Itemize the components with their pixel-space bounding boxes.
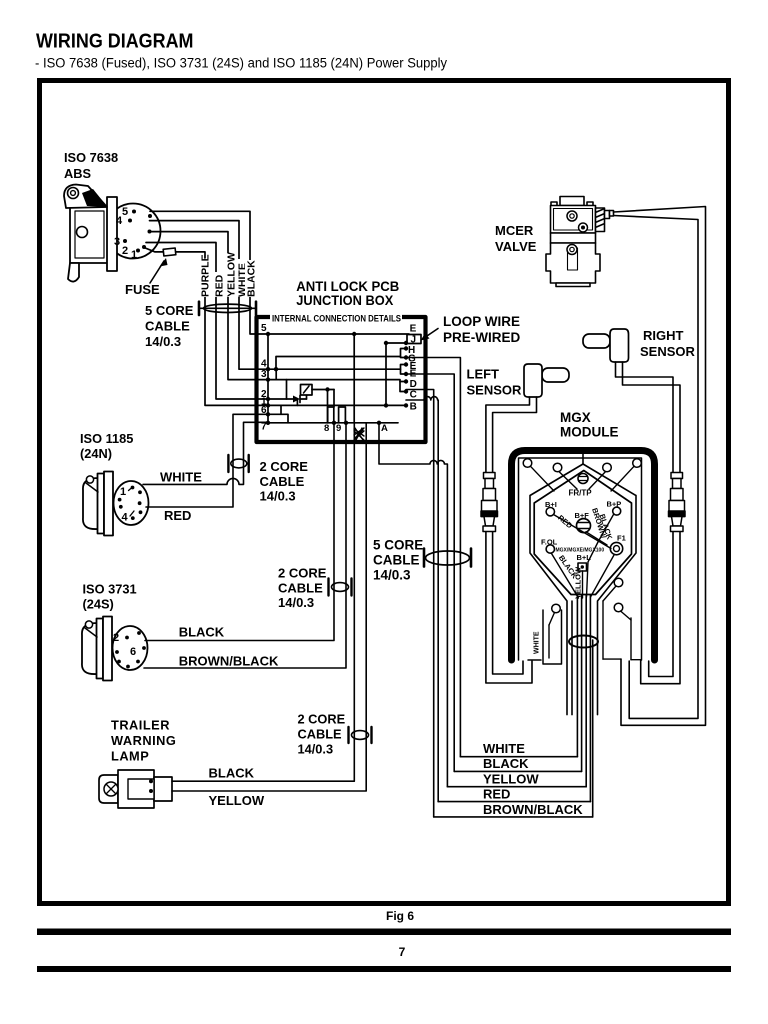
- wire row 2 with diode to relay: [268, 398, 293, 400]
- relay K1: [301, 385, 313, 396]
- bracket H-G: [401, 349, 407, 358]
- svg-text:2 CORE: 2 CORE: [278, 566, 327, 581]
- svg-text:ANTI LOCK PCB: ANTI LOCK PCB: [296, 279, 399, 294]
- connector ISO7638 top bracket with hole: [64, 185, 107, 209]
- svg-text:WHITE: WHITE: [483, 741, 525, 756]
- wire from valve upper: [614, 207, 706, 726]
- connector ISO7638 side boss circle: [77, 227, 88, 238]
- junction box outline: [257, 317, 426, 442]
- svg-text:ISO 3731: ISO 3731: [83, 582, 137, 597]
- letter row dots: [404, 341, 408, 345]
- svg-text:FUSE: FUSE: [125, 282, 160, 297]
- wire right sensor 1: [616, 362, 674, 677]
- svg-text:8: 8: [324, 423, 329, 434]
- svg-text:14/0.3: 14/0.3: [278, 595, 314, 610]
- svg-text:RED: RED: [164, 508, 191, 523]
- svg-text:7: 7: [399, 945, 406, 959]
- valve circles: [567, 211, 577, 221]
- wire row BLACK: [454, 770, 581, 772]
- outer plate outline left: [530, 464, 583, 715]
- module MGX inner wall: [519, 458, 642, 660]
- svg-text:2 CORE: 2 CORE: [298, 712, 346, 727]
- bracket D-C: [400, 382, 406, 392]
- svg-text:RED: RED: [483, 787, 510, 802]
- horizontal rule 2: [37, 966, 731, 972]
- svg-text:CABLE: CABLE: [373, 553, 420, 568]
- svg-text:3: 3: [114, 236, 120, 248]
- connector ISO7638 housing body: [70, 206, 108, 263]
- svg-text:E: E: [410, 324, 417, 335]
- screw holes lower: [552, 604, 561, 613]
- wire exit E row to black: [406, 374, 454, 771]
- wire black from pin5: [150, 211, 268, 334]
- pin numbers left side: [261, 323, 267, 433]
- wire yellow lamp: [172, 423, 366, 791]
- pin numbers bottom: [324, 423, 388, 434]
- wire cascade 4 up to HG feed: [276, 357, 401, 370]
- wire bottom row 7: [268, 422, 398, 424]
- svg-text:BLACK: BLACK: [179, 625, 225, 640]
- wire brown/black: [144, 423, 346, 668]
- wire row YELLOW: [447, 786, 586, 788]
- svg-text:BLACK: BLACK: [483, 756, 529, 771]
- svg-text:WHITE: WHITE: [534, 631, 541, 654]
- connector ISO1185 housing: [83, 474, 104, 534]
- hexagon plate: [534, 471, 631, 595]
- wire red from pin2: [146, 243, 268, 400]
- wire vertical from row5 down: [353, 334, 355, 423]
- wire left sensor 1: [486, 397, 532, 683]
- wire row 3 to DC bracket: [268, 380, 400, 382]
- svg-text:JUNCTION BOX: JUNCTION BOX: [296, 293, 393, 308]
- wire jog over pin8: [328, 407, 334, 423]
- svg-text:CABLE: CABLE: [298, 727, 343, 742]
- wire left sensor 2: [493, 397, 537, 674]
- terminal FR/TP: [578, 474, 588, 484]
- connector ISO3731 housing: [82, 619, 103, 679]
- screw hole stubs: [531, 466, 555, 491]
- svg-text:SENSOR: SENSOR: [640, 344, 696, 359]
- svg-text:PURPLE: PURPLE: [200, 254, 212, 297]
- svg-text:(24S): (24S): [83, 597, 114, 612]
- cable marker 2-core lamp: [347, 727, 349, 743]
- svg-text:A: A: [381, 423, 388, 434]
- pin dots: [132, 210, 136, 214]
- svg-text:CABLE: CABLE: [260, 474, 305, 489]
- svg-text:B: B: [410, 402, 417, 413]
- bracket E-E: [401, 365, 407, 375]
- wire row BROWN/BLACK: [434, 816, 593, 818]
- wire red: [146, 414, 268, 507]
- fuse F1: [163, 248, 176, 256]
- svg-text:14/0.3: 14/0.3: [145, 334, 181, 349]
- svg-text:WIRING DIAGRAM: WIRING DIAGRAM: [36, 31, 194, 53]
- svg-text:ISO 7638: ISO 7638: [64, 150, 118, 165]
- svg-text:BLACK: BLACK: [246, 260, 258, 297]
- svg-text:MODULE: MODULE: [560, 425, 619, 440]
- svg-text:4: 4: [261, 359, 267, 370]
- wire cascade ladder: [275, 369, 277, 379]
- connector ISO1185 circle: [114, 481, 149, 525]
- svg-text:ABS: ABS: [64, 166, 91, 181]
- svg-text:(24N): (24N): [80, 446, 112, 461]
- wire jog over pin9: [339, 407, 346, 423]
- svg-text:MGX: MGX: [560, 410, 591, 425]
- svg-text:CABLE: CABLE: [145, 319, 190, 334]
- svg-text:BLACK: BLACK: [209, 766, 255, 781]
- svg-text:14/0.3: 14/0.3: [260, 489, 296, 504]
- valve MCER body: [546, 197, 614, 287]
- inline connector left sensor: [481, 473, 498, 532]
- cable marker 2-core ISO1185: [227, 455, 229, 472]
- svg-text:5 CORE: 5 CORE: [145, 303, 194, 318]
- connector ISO7638 mounting plate: [107, 197, 117, 271]
- left pin bus: [267, 334, 269, 423]
- svg-text:14/0.3: 14/0.3: [373, 568, 411, 583]
- svg-text:LOOP WIRE: LOOP WIRE: [443, 314, 520, 329]
- svg-text:WARNING: WARNING: [111, 733, 176, 748]
- lamp trailer warning: [99, 775, 118, 803]
- svg-text:2: 2: [122, 245, 128, 257]
- svg-text:- ISO 7638 (Fused), ISO 3731 (: - ISO 7638 (Fused), ISO 3731 (24S) and I…: [35, 56, 447, 71]
- svg-text:PRE-WIRED: PRE-WIRED: [443, 330, 521, 345]
- wire row 1 to B: [268, 404, 406, 406]
- hatch mark symbol: [354, 428, 364, 440]
- svg-text:WHITE: WHITE: [160, 470, 202, 485]
- connector ISO3731 circle: [113, 626, 148, 670]
- pin junction dots: [266, 332, 270, 336]
- svg-text:RIGHT: RIGHT: [643, 328, 684, 343]
- svg-text:ISO 1185: ISO 1185: [80, 431, 133, 446]
- svg-text:INTERNAL CONNECTION DETAILS: INTERNAL CONNECTION DETAILS: [272, 314, 401, 325]
- svg-text:5: 5: [122, 206, 128, 218]
- svg-text:YELLOW: YELLOW: [483, 772, 539, 787]
- wire white loop: [543, 610, 562, 664]
- wire exit D row to brown/black: [406, 390, 434, 817]
- svg-text:2: 2: [113, 632, 119, 644]
- right bus J to B: [385, 343, 387, 405]
- svg-text:Fig 6: Fig 6: [386, 909, 414, 923]
- horizontal rule 1: [37, 929, 731, 936]
- cable trunk wires: [576, 595, 578, 757]
- svg-text:D: D: [410, 379, 417, 390]
- svg-text:LAMP: LAMP: [111, 749, 149, 764]
- svg-text:RED: RED: [214, 274, 226, 297]
- terminal feed wires: [554, 515, 612, 549]
- svg-text:C: C: [410, 390, 417, 401]
- svg-text:5 CORE: 5 CORE: [373, 538, 423, 553]
- cable marker 2-core ISO3731: [327, 579, 329, 596]
- wire purple from pin1 through fuse: [144, 248, 164, 252]
- wire white from pin4: [150, 221, 269, 370]
- svg-text:4: 4: [116, 215, 123, 227]
- svg-text:3: 3: [261, 369, 267, 380]
- svg-text:5: 5: [261, 323, 267, 334]
- svg-text:CABLE: CABLE: [278, 581, 323, 596]
- left sensor plug: [542, 368, 569, 382]
- svg-text:BROWN/BLACK: BROWN/BLACK: [483, 802, 583, 817]
- wire right sensor 2: [623, 362, 681, 684]
- svg-text:MCER: MCER: [495, 223, 534, 238]
- wire row 6 step: [268, 414, 288, 423]
- svg-text:BROWN/BLACK: BROWN/BLACK: [179, 654, 279, 669]
- wire yellow from pin3: [149, 232, 268, 380]
- diode D1: [293, 396, 300, 403]
- svg-text:YELLOW: YELLOW: [574, 566, 583, 599]
- wire row 5 to E: [268, 333, 409, 335]
- wire from valve lower: [614, 216, 699, 719]
- svg-text:LEFT: LEFT: [467, 367, 500, 382]
- wire black lamp: [172, 423, 354, 781]
- screw holes top: [523, 459, 532, 468]
- wire exit C row with loops to red: [406, 397, 438, 802]
- page frame: [40, 81, 729, 904]
- pin dots: [125, 636, 129, 640]
- wire row 4 to EE bracket: [268, 368, 401, 370]
- wire row RED: [438, 801, 590, 803]
- wire black: [145, 423, 334, 641]
- wire white with bump: [143, 422, 268, 484]
- svg-text:14/0.3: 14/0.3: [298, 742, 334, 757]
- cable sheath oval: [569, 636, 598, 648]
- svg-text:9: 9: [336, 423, 341, 434]
- fuse arrow: [150, 261, 164, 283]
- svg-text:2 CORE: 2 CORE: [260, 459, 309, 474]
- svg-text:F1: F1: [617, 534, 626, 543]
- pin dots: [131, 486, 135, 490]
- cable marker 5-core mid: [423, 549, 426, 567]
- svg-text:6: 6: [130, 646, 136, 658]
- svg-text:TRAILER: TRAILER: [111, 718, 170, 733]
- outer plate outline right: [583, 464, 636, 715]
- wire row WHITE: [460, 756, 577, 758]
- svg-text:1: 1: [120, 486, 126, 498]
- connector J loop box: [407, 335, 421, 344]
- center stem: [582, 450, 584, 464]
- arrow to J: [424, 329, 438, 339]
- wire exit A with loops to yellow: [379, 423, 447, 787]
- inline connector right sensor: [669, 473, 686, 532]
- svg-text:YELLOW: YELLOW: [209, 793, 265, 808]
- right sensor plug: [583, 334, 610, 348]
- svg-text:VALVE: VALVE: [495, 239, 537, 254]
- svg-text:SENSOR: SENSOR: [467, 383, 523, 398]
- wire exit G row to white: [406, 358, 460, 757]
- cable marker 5-core: [198, 302, 201, 315]
- connector ISO7638 body circle: [106, 204, 161, 259]
- module MGX thick border: [512, 451, 655, 661]
- connector ISO7638 lower tail: [68, 263, 79, 282]
- wire colour labels (vertical): [199, 252, 258, 297]
- svg-text:FR/TP: FR/TP: [569, 489, 593, 498]
- pin letters right side: [408, 324, 417, 413]
- wire relay to verticals: [312, 389, 334, 391]
- svg-text:4: 4: [122, 512, 129, 524]
